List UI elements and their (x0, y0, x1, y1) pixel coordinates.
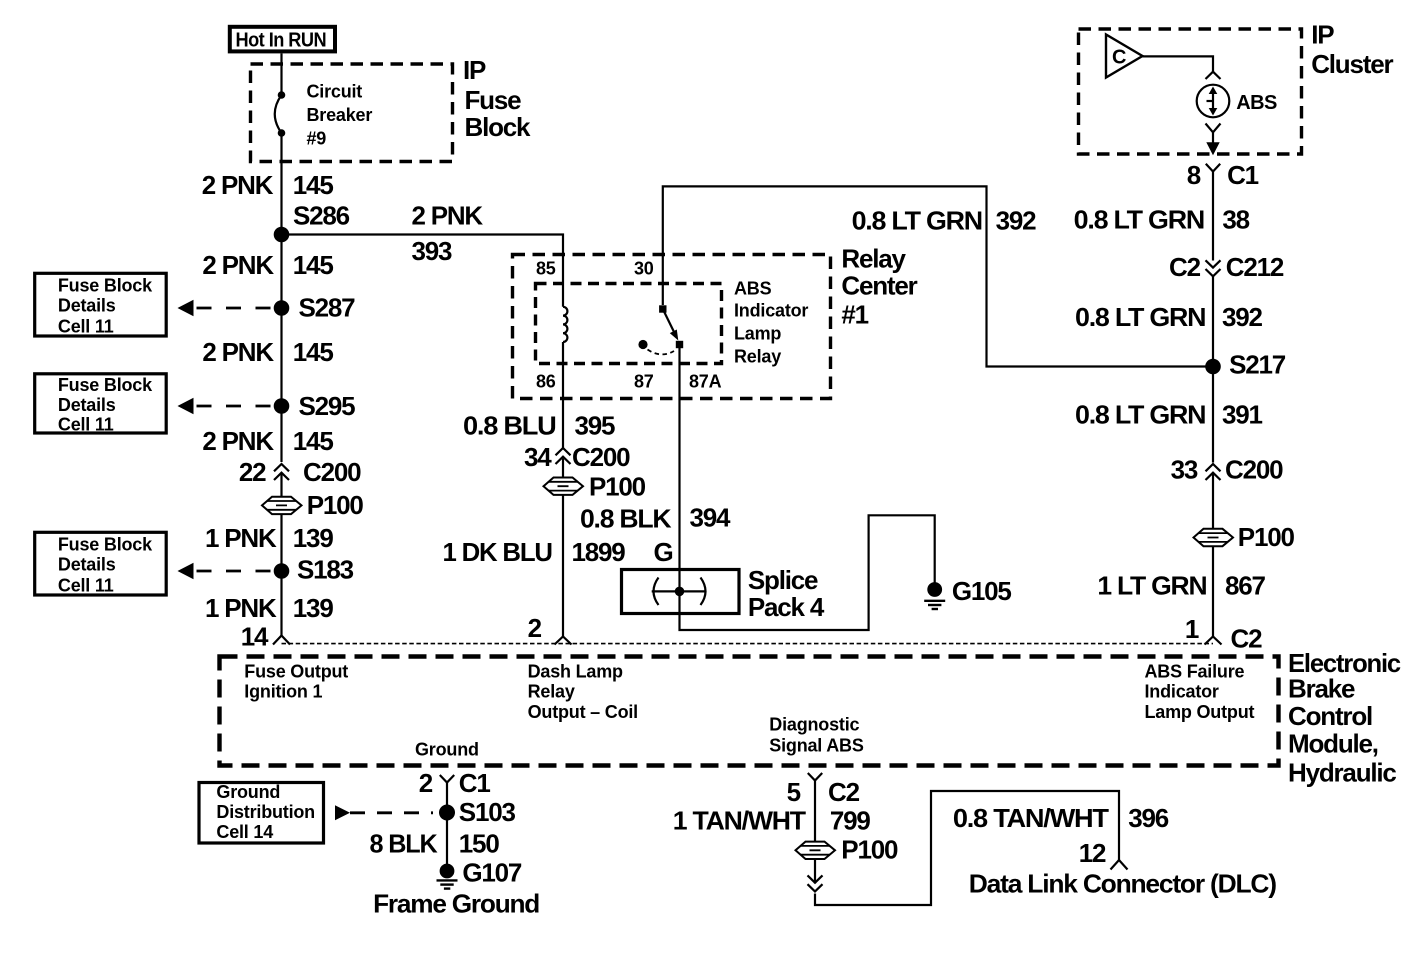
svg-text:P100: P100 (841, 835, 898, 865)
svg-text:145: 145 (293, 337, 334, 367)
svg-text:139: 139 (293, 593, 334, 623)
svg-text:1 PNK: 1 PNK (205, 593, 277, 623)
svg-text:34: 34 (524, 442, 552, 472)
svg-text:1899: 1899 (572, 537, 626, 567)
svg-text:ABS: ABS (1236, 92, 1277, 114)
svg-text:1: 1 (1185, 614, 1199, 644)
svg-text:0.8 LT GRN: 0.8 LT GRN (852, 206, 983, 236)
svg-text:G105: G105 (952, 576, 1012, 606)
svg-text:S103: S103 (459, 797, 516, 827)
svg-text:Distribution: Distribution (216, 802, 315, 822)
svg-text:392: 392 (1222, 302, 1263, 332)
svg-text:C200: C200 (303, 457, 361, 487)
svg-text:139: 139 (293, 523, 334, 553)
svg-text:Ground: Ground (415, 740, 479, 760)
svg-text:33: 33 (1171, 455, 1198, 485)
svg-text:Ground: Ground (216, 782, 280, 802)
svg-text:P100: P100 (1238, 522, 1295, 552)
svg-text:1 PNK: 1 PNK (205, 523, 277, 553)
svg-text:145: 145 (293, 426, 334, 456)
svg-text:Indicator: Indicator (1145, 682, 1219, 702)
svg-text:396: 396 (1128, 803, 1169, 833)
svg-text:Frame Ground: Frame Ground (373, 889, 539, 919)
svg-text:G107: G107 (462, 858, 522, 888)
svg-text:395: 395 (575, 411, 616, 441)
svg-text:Cell 11: Cell 11 (58, 576, 114, 596)
svg-text:S183: S183 (297, 555, 354, 585)
svg-text:799: 799 (830, 806, 871, 836)
svg-text:2: 2 (419, 768, 433, 798)
svg-text:0.8 BLK: 0.8 BLK (580, 504, 672, 534)
svg-text:S217: S217 (1229, 350, 1286, 380)
svg-text:C1: C1 (459, 768, 491, 798)
svg-text:C200: C200 (1225, 455, 1283, 485)
svg-text:S295: S295 (299, 391, 356, 421)
svg-text:Control: Control (1288, 701, 1372, 731)
svg-text:1 DK BLU: 1 DK BLU (443, 537, 553, 567)
svg-text:8: 8 (1187, 160, 1201, 190)
svg-text:2: 2 (528, 613, 542, 643)
svg-text:Relay: Relay (734, 347, 781, 367)
svg-text:150: 150 (459, 829, 500, 859)
svg-text:0.8 LT GRN: 0.8 LT GRN (1075, 400, 1206, 430)
svg-text:145: 145 (293, 250, 334, 280)
svg-text:Breaker: Breaker (307, 105, 373, 125)
svg-text:S286: S286 (293, 201, 350, 231)
svg-text:Dash Lamp: Dash Lamp (528, 662, 623, 682)
svg-text:C2: C2 (1169, 252, 1201, 282)
svg-text:86: 86 (536, 372, 556, 392)
svg-text:Relay: Relay (841, 244, 906, 274)
svg-text:2 PNK: 2 PNK (202, 170, 274, 200)
svg-text:Module,: Module, (1288, 729, 1378, 759)
svg-text:1 LT GRN: 1 LT GRN (1097, 571, 1206, 601)
svg-text:Relay: Relay (528, 682, 575, 702)
svg-text:Circuit: Circuit (307, 82, 363, 102)
svg-text:Details: Details (58, 555, 116, 575)
svg-text:0.8 LT GRN: 0.8 LT GRN (1074, 205, 1205, 235)
svg-text:Data Link Connector (DLC): Data Link Connector (DLC) (969, 869, 1277, 899)
svg-text:30: 30 (634, 259, 654, 279)
svg-text:Output – Coil: Output – Coil (528, 702, 638, 722)
svg-text:Lamp Output: Lamp Output (1145, 702, 1255, 722)
svg-text:22: 22 (239, 457, 266, 487)
svg-text:ABS: ABS (734, 279, 772, 299)
svg-text:Fuse Block: Fuse Block (58, 375, 153, 395)
svg-text:14: 14 (241, 622, 269, 652)
svg-text:#9: #9 (307, 129, 327, 149)
svg-text:Center: Center (841, 271, 917, 301)
svg-text:2 PNK: 2 PNK (202, 426, 274, 456)
svg-text:Pack 4: Pack 4 (748, 592, 825, 622)
svg-text:Hydraulic: Hydraulic (1288, 758, 1396, 788)
svg-text:391: 391 (1222, 400, 1263, 430)
svg-text:Cell 11: Cell 11 (58, 415, 114, 435)
svg-text:87: 87 (634, 372, 654, 392)
svg-text:1 TAN/WHT: 1 TAN/WHT (673, 806, 806, 836)
svg-text:S287: S287 (299, 293, 356, 323)
svg-text:0.8 BLU: 0.8 BLU (463, 411, 556, 441)
svg-text:P100: P100 (307, 490, 364, 520)
svg-text:85: 85 (536, 259, 556, 279)
svg-text:Splice: Splice (748, 565, 818, 595)
svg-text:87A: 87A (689, 372, 722, 392)
svg-text:C2: C2 (1231, 624, 1263, 654)
svg-text:867: 867 (1225, 571, 1266, 601)
svg-text:393: 393 (412, 236, 453, 266)
svg-text:Cell 14: Cell 14 (216, 822, 273, 842)
svg-text:C200: C200 (572, 442, 630, 472)
svg-text:12: 12 (1079, 838, 1106, 868)
svg-text:C1: C1 (1227, 160, 1259, 190)
svg-text:394: 394 (690, 503, 732, 533)
svg-text:ABS Failure: ABS Failure (1145, 662, 1245, 682)
svg-text:Diagnostic: Diagnostic (769, 715, 859, 735)
svg-text:0.8 TAN/WHT: 0.8 TAN/WHT (953, 803, 1109, 833)
svg-text:#1: #1 (841, 300, 868, 330)
svg-text:IP: IP (463, 55, 486, 85)
svg-text:Fuse: Fuse (465, 85, 522, 115)
svg-text:Fuse Block: Fuse Block (58, 535, 153, 555)
svg-text:Details: Details (58, 395, 116, 415)
svg-text:Block: Block (465, 112, 532, 142)
svg-text:Indicator: Indicator (734, 301, 808, 321)
svg-text:Fuse Block: Fuse Block (58, 276, 153, 296)
svg-text:C2: C2 (828, 777, 860, 807)
svg-text:392: 392 (996, 206, 1037, 236)
svg-text:Brake: Brake (1288, 674, 1355, 704)
svg-text:Details: Details (58, 296, 116, 316)
svg-text:Cluster: Cluster (1311, 49, 1393, 79)
svg-text:IP: IP (1311, 20, 1334, 50)
svg-text:38: 38 (1222, 205, 1249, 235)
svg-text:2 PNK: 2 PNK (412, 201, 484, 231)
svg-text:Cell 11: Cell 11 (58, 317, 114, 337)
svg-text:Lamp: Lamp (734, 324, 781, 344)
svg-text:2 PNK: 2 PNK (202, 337, 274, 367)
svg-text:C212: C212 (1226, 252, 1284, 282)
svg-text:P100: P100 (589, 472, 646, 502)
svg-text:G: G (654, 537, 673, 567)
svg-text:5: 5 (787, 777, 801, 807)
svg-text:2 PNK: 2 PNK (202, 250, 274, 280)
svg-text:145: 145 (293, 170, 334, 200)
svg-text:Signal ABS: Signal ABS (769, 736, 864, 756)
svg-text:8 BLK: 8 BLK (370, 829, 438, 859)
svg-text:Hot In RUN: Hot In RUN (236, 30, 327, 52)
svg-text:0.8 LT GRN: 0.8 LT GRN (1075, 302, 1206, 332)
svg-text:Fuse Output: Fuse Output (244, 662, 348, 682)
svg-text:Ignition 1: Ignition 1 (244, 682, 322, 702)
svg-text:C: C (1112, 47, 1126, 69)
